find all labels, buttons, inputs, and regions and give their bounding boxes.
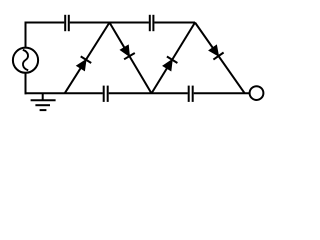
- capacitor C2 (bottom left): [104, 86, 108, 102]
- wire top rail left segment: [25, 22, 65, 24]
- wire bottom rail right segment: [194, 92, 250, 94]
- diode D1: [65, 23, 110, 94]
- ac source V1: [13, 48, 38, 73]
- output terminal: [250, 86, 264, 100]
- wire left vertical upper: [25, 22, 27, 48]
- capacitor C4 (bottom right): [189, 86, 193, 102]
- wire top rail middle segment: [70, 22, 149, 24]
- wire left vertical lower: [25, 74, 27, 95]
- wire bottom rail middle segment: [109, 92, 188, 94]
- capacitor C1 (top left): [65, 15, 69, 31]
- wire bottom rail left segment: [25, 92, 103, 94]
- ground: [31, 93, 56, 110]
- diode D4: [195, 23, 245, 94]
- diode D2: [110, 23, 152, 94]
- diode D3: [152, 23, 196, 94]
- wire top rail right segment: [154, 22, 195, 24]
- capacitor C3 (top right): [150, 15, 154, 31]
